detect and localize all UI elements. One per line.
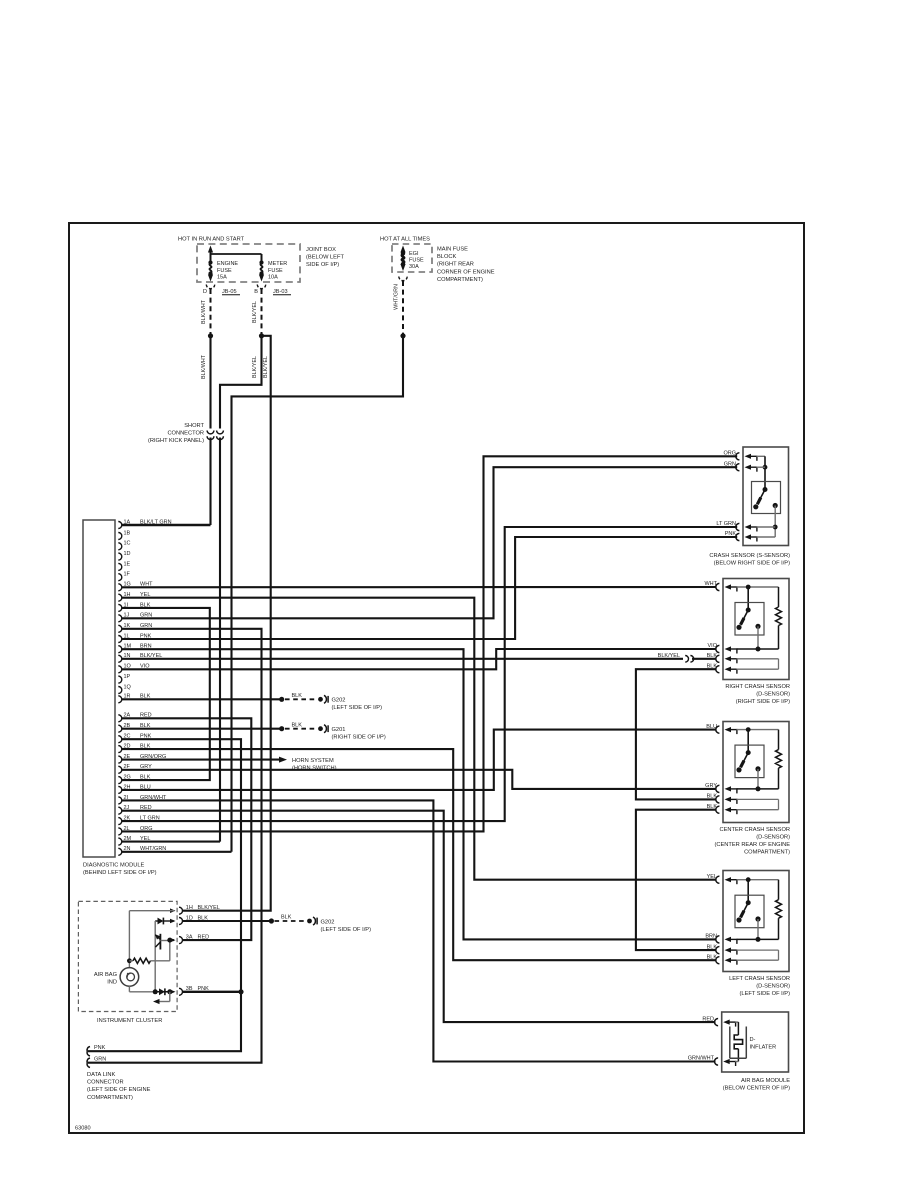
- module pin 2I GRN/WHT: [118, 797, 122, 804]
- ground G202: [318, 697, 323, 702]
- air bag module pin RED: [715, 1019, 719, 1026]
- svg-text:G201: G201: [332, 727, 346, 733]
- svg-text:(BELOW LEFT: (BELOW LEFT: [306, 255, 344, 261]
- svg-text:(LEFT SIDE OF I/P): (LEFT SIDE OF I/P): [332, 705, 383, 711]
- svg-text:(D-SENSOR): (D-SENSOR): [756, 834, 790, 840]
- module pin 2H BLU: [118, 786, 122, 793]
- svg-text:30A: 30A: [409, 264, 419, 270]
- short connector halves on BLK/WHT wire: [207, 431, 214, 434]
- svg-text:FUSE: FUSE: [268, 268, 283, 274]
- svg-text:1D: 1D: [124, 551, 131, 557]
- module pin 2B BLK: [118, 725, 122, 732]
- air bag indicator lamp: [120, 968, 139, 987]
- diode at 1D: [155, 920, 157, 922]
- svg-text:HOT AT ALL TIMES: HOT AT ALL TIMES: [380, 237, 430, 243]
- svg-text:BLK: BLK: [707, 653, 718, 659]
- svg-text:(D-SENSOR): (D-SENSOR): [756, 983, 790, 989]
- svg-text:COMPARTMENT): COMPARTMENT): [744, 850, 790, 856]
- svg-text:BLK: BLK: [281, 915, 292, 921]
- svg-text:PNK: PNK: [198, 986, 210, 992]
- svg-text:3B: 3B: [186, 986, 193, 992]
- svg-text:1Q: 1Q: [124, 684, 132, 690]
- module pin 1C: [118, 543, 122, 550]
- connector below EGI fuse: [399, 277, 407, 281]
- svg-text:BLK/YEL: BLK/YEL: [658, 653, 680, 659]
- wire 1J GRN to S-sensor GRN: [122, 467, 737, 618]
- wire cluster 1D BLK to ground G202: [182, 920, 271, 922]
- right crash sensor D-sensor: [723, 579, 789, 680]
- svg-text:BLU: BLU: [706, 724, 717, 730]
- wire BLK/YEL dashed from JB-03: [261, 289, 263, 334]
- svg-text:WHT/GRN: WHT/GRN: [393, 284, 399, 310]
- module pin 1E: [118, 563, 122, 570]
- svg-text:BLK/WHT: BLK/WHT: [201, 299, 207, 324]
- module pin 2C PNK: [118, 736, 122, 743]
- wire BLK bus center sensor to left sensor: [636, 810, 717, 950]
- wire 1G WHT to right crash sensor: [122, 586, 717, 588]
- wire 2C PNK to cluster 3B and data link: [88, 739, 241, 1051]
- wire 1R BLK to ground G202: [122, 698, 282, 700]
- svg-text:ENGINE: ENGINE: [217, 261, 238, 267]
- svg-text:EGI: EGI: [409, 251, 419, 257]
- svg-text:HOT IN RUN AND START: HOT IN RUN AND START: [178, 237, 245, 243]
- data link connector GRN terminal: [87, 1058, 90, 1068]
- svg-text:BLK/YEL: BLK/YEL: [198, 905, 220, 911]
- svg-text:G202: G202: [332, 698, 346, 704]
- junction BLK/WHT: [208, 333, 213, 338]
- svg-text:DIAGNOSTIC MODULE: DIAGNOSTIC MODULE: [83, 863, 145, 869]
- svg-text:2M: 2M: [124, 836, 132, 842]
- inflater housing brackets: [729, 1027, 731, 1059]
- S-sensor pin ORG: [736, 453, 740, 460]
- cluster pin 1D BLK: [170, 919, 176, 924]
- instrument cluster dashed box: [78, 901, 177, 1011]
- svg-text:INSTRUMENT CLUSTER: INSTRUMENT CLUSTER: [97, 1018, 162, 1024]
- joint box JB dashed enclosure: [197, 244, 300, 282]
- transistor: [159, 934, 161, 950]
- left crash sensor D-sensor: [723, 871, 789, 972]
- svg-text:1B: 1B: [124, 530, 131, 536]
- module pin 1K GRN: [118, 625, 122, 632]
- svg-text:SHORT: SHORT: [184, 423, 204, 429]
- S-sensor pin LT GRN: [736, 523, 740, 530]
- module pin 1H YEL: [118, 594, 122, 601]
- module pin 1D: [118, 553, 122, 560]
- svg-text:BLK/WHT: BLK/WHT: [201, 354, 207, 379]
- module pin 1F: [118, 574, 122, 581]
- svg-text:BLK: BLK: [707, 663, 718, 669]
- wire BLK bus right sensor to center sensor: [636, 669, 717, 799]
- connector B JB-03: [257, 285, 265, 289]
- svg-text:AIR BAG MODULE: AIR BAG MODULE: [741, 1078, 790, 1084]
- module pin 1A BLK/LT GRN: [118, 522, 122, 529]
- svg-text:COMPARTMENT): COMPARTMENT): [87, 1095, 133, 1101]
- cluster pin 1H BLK/YEL: [170, 908, 176, 913]
- svg-text:(BEHIND LEFT SIDE OF I/P): (BEHIND LEFT SIDE OF I/P): [83, 870, 157, 876]
- wire 2B BLK to ground G201: [122, 728, 282, 730]
- wire WHT/GRN down to pin 2N: [232, 336, 404, 852]
- svg-text:CRASH SENSOR (S-SENSOR): CRASH SENSOR (S-SENSOR): [709, 553, 790, 559]
- svg-text:63080: 63080: [75, 1126, 91, 1132]
- ground G202 at cluster: [307, 919, 312, 924]
- module pin 2J RED: [118, 807, 122, 814]
- module pin 2A RED: [118, 715, 122, 722]
- wire 1N BLK/YEL to right crash sensor BLK: [122, 658, 683, 660]
- svg-text:YEL: YEL: [707, 874, 717, 880]
- svg-text:D: D: [203, 289, 207, 295]
- junction at 3A: [167, 938, 172, 943]
- wire 1I BLK loop to 2G BLK: [122, 608, 210, 780]
- wire 1K GRN to data link connector: [88, 629, 262, 1063]
- connector D JB-05: [206, 285, 214, 289]
- svg-text:BLK: BLK: [707, 794, 718, 800]
- svg-text:JOINT BOX: JOINT BOX: [306, 247, 336, 253]
- wire 2J RED to air bag module: [122, 811, 716, 1022]
- module pin 1J GRN: [118, 615, 122, 622]
- short connector halves on BLK/YEL wire: [217, 431, 224, 434]
- module pin 1P: [118, 676, 122, 683]
- fuse EGI FUSE 30A: [400, 246, 405, 253]
- module pin 1O VIO: [118, 666, 122, 673]
- svg-text:CONNECTOR: CONNECTOR: [87, 1080, 124, 1086]
- wire 1H YEL to left crash sensor: [122, 598, 717, 880]
- svg-text:BLK/LT GRN: BLK/LT GRN: [140, 519, 172, 525]
- wire 2K LT GRN to S-sensor LT GRN: [122, 527, 737, 821]
- module pin 1B: [118, 533, 122, 540]
- wire 2A RED to instrument cluster 3A: [122, 718, 251, 940]
- module pin 2E GRN/ORG: [118, 756, 122, 763]
- svg-text:BLK: BLK: [707, 954, 718, 960]
- svg-text:1C: 1C: [124, 541, 131, 547]
- svg-text:GRN/WHT: GRN/WHT: [688, 1056, 715, 1062]
- S-sensor pin GRN: [736, 464, 740, 471]
- svg-text:IND: IND: [107, 979, 117, 985]
- svg-text:G202: G202: [321, 919, 335, 925]
- svg-text:1A: 1A: [124, 519, 131, 525]
- svg-text:RED: RED: [702, 1016, 714, 1022]
- svg-text:WHT: WHT: [704, 581, 717, 587]
- fuse ENGINE FUSE 15A: [208, 260, 212, 264]
- svg-text:RIGHT CRASH SENSOR: RIGHT CRASH SENSOR: [725, 684, 790, 690]
- wire 2D BLK to left crash sensor BLK: [122, 749, 717, 960]
- svg-text:RED: RED: [198, 934, 210, 940]
- svg-text:GRN: GRN: [94, 1056, 106, 1062]
- main fuse block dashed enclosure: [392, 244, 432, 272]
- cluster lamp to 3B wire: [128, 986, 130, 992]
- svg-text:1H: 1H: [186, 905, 193, 911]
- svg-text:(RIGHT SIDE OF I/P): (RIGHT SIDE OF I/P): [736, 699, 790, 705]
- diagnostic module box: [83, 520, 115, 857]
- svg-text:FUSE: FUSE: [217, 268, 232, 274]
- wire 1L PNK to S-sensor PNK: [122, 537, 737, 639]
- svg-text:COMPARTMENT): COMPARTMENT): [437, 277, 483, 283]
- junction at resistor: [127, 958, 132, 963]
- module pin 1R BLK: [118, 696, 122, 703]
- wire 1M BRN to left crash sensor BRN: [122, 649, 717, 939]
- svg-text:(LEFT SIDE OF ENGINE: (LEFT SIDE OF ENGINE: [87, 1087, 151, 1093]
- svg-text:(BELOW RIGHT SIDE OF I/P): (BELOW RIGHT SIDE OF I/P): [714, 560, 790, 566]
- svg-text:BLK: BLK: [707, 804, 718, 810]
- svg-text:CORNER OF ENGINE: CORNER OF ENGINE: [437, 269, 495, 275]
- svg-text:BLK/YEL: BLK/YEL: [252, 356, 258, 378]
- svg-text:AIR BAG: AIR BAG: [94, 972, 117, 978]
- svg-text:D-: D-: [750, 1037, 756, 1043]
- cluster resistor: [129, 960, 133, 962]
- svg-text:(BELOW CENTER OF I/P): (BELOW CENTER OF I/P): [723, 1085, 790, 1091]
- module pin 2F GRY: [118, 766, 122, 773]
- cluster internal vertical 1D to 3B: [154, 921, 156, 992]
- junction PNK at cluster 3B: [238, 989, 243, 994]
- svg-text:GRN: GRN: [724, 461, 736, 467]
- wire fuse bus junction: [211, 253, 262, 255]
- svg-text:PNK: PNK: [725, 531, 737, 537]
- junction BLK/YEL: [259, 333, 264, 338]
- svg-text:B: B: [254, 289, 258, 295]
- module pin 2M YEL: [118, 838, 122, 845]
- wire 1O VIO to right crash sensor VIO: [122, 649, 717, 669]
- junction WHT/GRN: [400, 333, 405, 338]
- svg-text:15A: 15A: [217, 274, 227, 280]
- module pin 2G BLK: [118, 777, 122, 784]
- module pin 1M BRN: [118, 646, 122, 653]
- module pin 2N WHT/GRN: [118, 848, 122, 855]
- cluster pin 3B PNK: [170, 990, 176, 995]
- svg-text:1P: 1P: [124, 674, 131, 680]
- wire 2I GRN/WHT to air bag module: [122, 800, 716, 1061]
- svg-text:3A: 3A: [186, 934, 193, 940]
- wire WHT/GRN dashed from EGI fuse: [402, 281, 404, 334]
- module pin 1Q: [118, 687, 122, 694]
- fuse METER FUSE 10A: [259, 260, 263, 264]
- svg-text:BLK: BLK: [292, 722, 303, 728]
- module pin 1G WHT: [118, 584, 122, 591]
- wire engine fuse feed with up arrow: [208, 246, 213, 253]
- svg-text:BLK/YEL: BLK/YEL: [252, 301, 258, 323]
- wire 2L ORG to S-sensor ORG: [122, 456, 737, 831]
- svg-text:LT GRN: LT GRN: [716, 521, 736, 527]
- wire 2H BLU to center crash sensor BLU: [122, 730, 717, 790]
- svg-text:BLK/YEL: BLK/YEL: [263, 356, 269, 378]
- svg-text:VIO: VIO: [708, 643, 718, 649]
- svg-text:BRN: BRN: [705, 934, 717, 940]
- svg-text:WHT/GRN: WHT/GRN: [140, 846, 166, 852]
- svg-text:1E: 1E: [124, 561, 131, 567]
- svg-text:1F: 1F: [124, 572, 131, 578]
- svg-text:(RIGHT KICK PANEL): (RIGHT KICK PANEL): [148, 438, 204, 444]
- module pin 1N BLK/YEL: [118, 655, 122, 662]
- border frame: [69, 223, 804, 1133]
- S-sensor internal wiring: [757, 455, 766, 457]
- wire 2F GRY to center crash sensor GRY: [122, 770, 717, 789]
- svg-text:(D-SENSOR): (D-SENSOR): [756, 691, 790, 697]
- svg-text:2N: 2N: [124, 846, 131, 852]
- svg-text:BLOCK: BLOCK: [437, 254, 456, 260]
- center crash sensor D-sensor: [723, 722, 789, 823]
- svg-text:CONNECTOR: CONNECTOR: [167, 431, 204, 437]
- module pin 1I BLK: [118, 604, 122, 611]
- svg-text:BLK: BLK: [707, 944, 718, 950]
- svg-text:INFLATER: INFLATER: [750, 1045, 777, 1051]
- crash sensor S-sensor box: [743, 447, 789, 546]
- data link connector PNK terminal: [87, 1047, 90, 1057]
- svg-text:PNK: PNK: [94, 1045, 106, 1051]
- diode at 3B: [153, 989, 158, 994]
- wire BLK/WHT dashed from JB-05: [210, 289, 212, 334]
- svg-text:LEFT CRASH SENSOR: LEFT CRASH SENSOR: [729, 976, 790, 982]
- module pin 2L ORG: [118, 828, 122, 835]
- svg-text:BLK: BLK: [292, 693, 303, 699]
- svg-text:METER: METER: [268, 261, 287, 267]
- svg-text:DATA LINK: DATA LINK: [87, 1072, 115, 1078]
- inflater squib element: [735, 1021, 738, 1023]
- svg-text:(LEFT SIDE OF I/P): (LEFT SIDE OF I/P): [740, 991, 791, 997]
- module pin 2K LT GRN: [118, 818, 122, 825]
- svg-text:MAIN FUSE: MAIN FUSE: [437, 247, 468, 253]
- svg-text:FUSE: FUSE: [409, 257, 424, 263]
- air bag module box: [722, 1012, 789, 1072]
- S-sensor pin PNK: [736, 533, 740, 540]
- cluster internal wire from 1H: [129, 910, 174, 912]
- cluster pin 3A RED: [170, 938, 176, 943]
- svg-text:(CENTER REAR OF ENGINE: (CENTER REAR OF ENGINE: [714, 842, 790, 848]
- svg-text:HORN SYSTEM: HORN SYSTEM: [292, 758, 334, 764]
- air bag module pin GRN/WHT: [715, 1058, 719, 1065]
- svg-text:SIDE OF I/P): SIDE OF I/P): [306, 262, 339, 268]
- svg-text:YEL: YEL: [140, 836, 150, 842]
- svg-text:(RIGHT SIDE OF I/P): (RIGHT SIDE OF I/P): [332, 735, 386, 741]
- module pin 2D BLK: [118, 746, 122, 753]
- ground G201: [318, 726, 323, 731]
- wire 2E GRN/ORG to horn system: [122, 759, 279, 761]
- svg-text:GRY: GRY: [705, 783, 717, 789]
- module pin 1L PNK: [118, 636, 122, 643]
- cluster continuation arrow below 3B: [169, 992, 171, 1002]
- svg-text:CENTER CRASH SENSOR: CENTER CRASH SENSOR: [720, 827, 790, 833]
- svg-text:(RIGHT REAR: (RIGHT REAR: [437, 262, 474, 268]
- S-sensor switch contacts: [763, 487, 768, 492]
- svg-text:(LEFT SIDE OF I/P): (LEFT SIDE OF I/P): [321, 927, 372, 933]
- svg-text:ORG: ORG: [723, 451, 736, 457]
- svg-text:10A: 10A: [268, 274, 278, 280]
- S-sensor inertia switch box: [752, 482, 781, 514]
